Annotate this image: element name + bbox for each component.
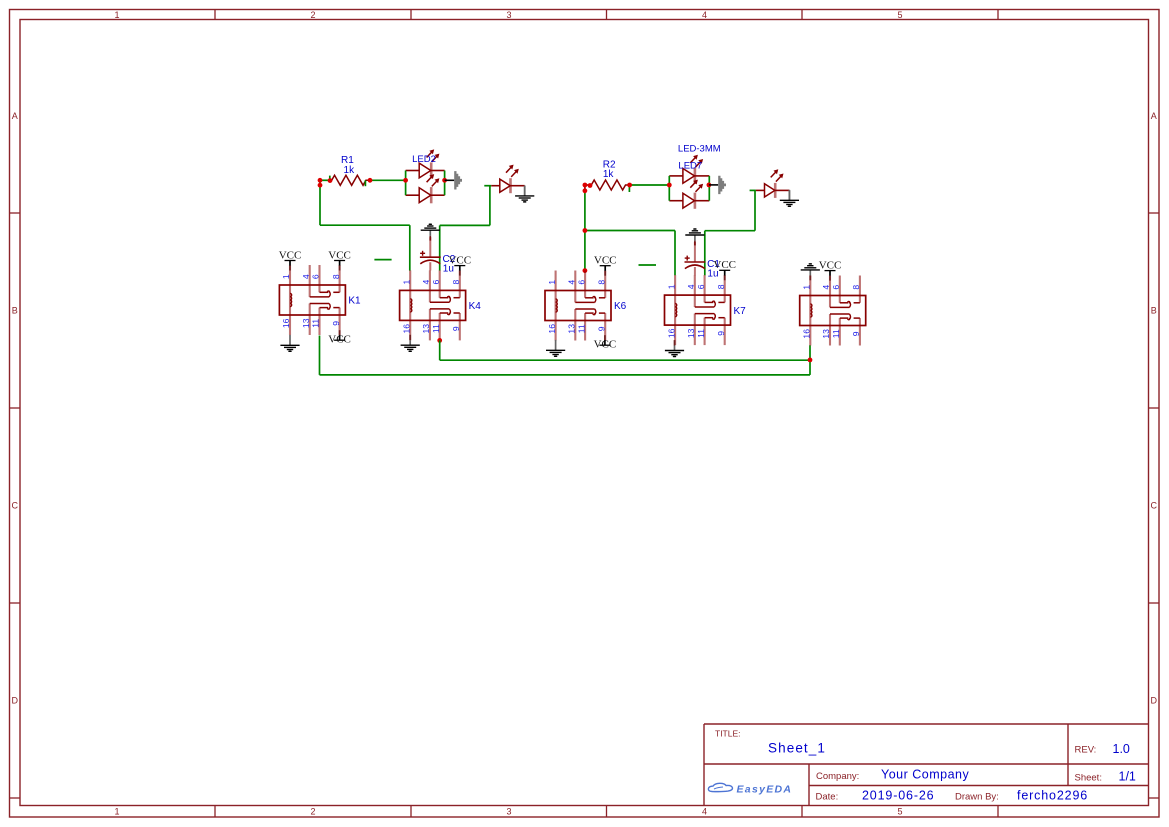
wire: [809, 345, 811, 375]
svg-text:2: 2: [310, 10, 315, 20]
wire: [320, 179, 330, 181]
wire: [440, 359, 810, 361]
svg-text:1/1: 1/1: [1119, 769, 1136, 783]
ground (above C2): [421, 224, 440, 240]
wire: [439, 225, 441, 270]
svg-text:Drawn By:: Drawn By:: [955, 792, 999, 803]
junction (K6 pin 6): [583, 268, 588, 273]
svg-text:16: 16: [281, 318, 291, 328]
resistor R2: [585, 160, 630, 191]
ground flag (gray triangle): [718, 176, 726, 194]
junction: [707, 183, 712, 188]
svg-text:13: 13: [301, 318, 311, 328]
wire: [674, 231, 676, 276]
svg-text:4: 4: [567, 280, 577, 285]
wire: [584, 191, 586, 271]
svg-text:VCC: VCC: [594, 255, 617, 267]
wire: [439, 340, 441, 360]
relay (unlabeled): [800, 276, 866, 346]
power flag VCC (K6 pin 9): [594, 335, 617, 350]
svg-text:C: C: [11, 501, 18, 511]
power flag VCC (K6 pin 8): [594, 255, 617, 276]
LED (unlabeled): [756, 169, 790, 198]
junction: [318, 183, 323, 188]
svg-text:K6: K6: [614, 301, 627, 312]
svg-text:B: B: [12, 306, 18, 316]
svg-text:1: 1: [281, 274, 291, 279]
svg-text:LED-3MM: LED-3MM: [678, 144, 721, 155]
power flag VCC (K4 pin 8): [448, 254, 471, 275]
svg-text:B: B: [1151, 306, 1157, 316]
wire: [484, 185, 491, 187]
relay K6: [545, 271, 627, 341]
svg-text:6: 6: [431, 279, 441, 284]
node (R2 left): [583, 183, 588, 188]
svg-text:Your Company: Your Company: [881, 768, 969, 782]
wire (to ground flag): [709, 184, 718, 186]
wire: [319, 180, 321, 225]
svg-text:VCC: VCC: [279, 249, 302, 261]
svg-text:9: 9: [596, 326, 606, 331]
svg-text:EasyEDA: EasyEDA: [737, 783, 793, 795]
junction: [583, 188, 588, 193]
svg-text:16: 16: [401, 324, 411, 334]
resistor R1: [330, 155, 370, 185]
wire: [628, 185, 630, 192]
svg-text:9: 9: [331, 321, 341, 326]
wire: [705, 230, 755, 232]
ground (above relay pin 1): [801, 264, 820, 280]
junction: [442, 178, 447, 183]
junction: [403, 178, 408, 183]
power flag VCC (K7 pin 8): [713, 259, 736, 280]
wire (LED cathode to ground): [788, 190, 790, 200]
capacitor C1: [685, 242, 721, 279]
svg-text:1k: 1k: [603, 169, 615, 180]
junction (T): [583, 228, 588, 233]
wire: [750, 189, 756, 191]
svg-text:Company:: Company:: [816, 771, 859, 782]
svg-text:8: 8: [596, 280, 606, 285]
node (R2 right): [627, 183, 632, 188]
svg-text:Sheet:: Sheet:: [1075, 773, 1102, 784]
svg-text:4: 4: [301, 274, 311, 279]
svg-text:13: 13: [686, 328, 696, 338]
svg-text:8: 8: [716, 284, 726, 289]
svg-text:1: 1: [114, 10, 119, 20]
svg-text:6: 6: [696, 284, 706, 289]
svg-text:4: 4: [686, 284, 696, 289]
svg-text:1: 1: [802, 285, 812, 290]
svg-text:K7: K7: [734, 306, 747, 317]
wire (stub): [374, 259, 391, 261]
svg-text:K4: K4: [469, 301, 482, 312]
svg-text:11: 11: [311, 319, 321, 328]
svg-text:1: 1: [401, 279, 411, 284]
wire (LED7 right): [708, 176, 710, 201]
wire: [319, 336, 321, 375]
wire: [370, 179, 406, 181]
svg-text:16: 16: [802, 329, 812, 339]
wire: [409, 225, 411, 270]
svg-text:Sheet_1: Sheet_1: [768, 741, 826, 756]
svg-text:11: 11: [576, 324, 586, 333]
wire: [329, 176, 331, 181]
junction: [588, 183, 593, 188]
svg-text:5: 5: [897, 807, 902, 817]
svg-text:16: 16: [547, 324, 557, 334]
svg-text:4: 4: [702, 10, 707, 20]
wire: [704, 231, 706, 276]
wire (LED cathode to ground): [524, 186, 526, 196]
svg-text:VCC: VCC: [328, 249, 351, 261]
svg-text:LED2: LED2: [412, 154, 436, 165]
svg-text:LED7: LED7: [678, 161, 702, 172]
dual LED LED2: [406, 149, 445, 203]
wire (LED7 left): [668, 176, 670, 201]
svg-text:D: D: [11, 696, 18, 706]
svg-text:C: C: [1151, 501, 1158, 511]
junction (K4 pin 11): [437, 338, 442, 343]
svg-text:VCC: VCC: [594, 338, 617, 350]
ground (above C1): [685, 229, 704, 245]
power flag VCC (K1 pin 9): [328, 330, 351, 345]
svg-text:A: A: [1151, 111, 1157, 121]
power flag VCC (K1 pin 8): [328, 249, 351, 270]
svg-text:fercho2296: fercho2296: [1017, 788, 1088, 802]
svg-text:13: 13: [567, 324, 577, 334]
wire: [440, 224, 490, 226]
junction (rails): [808, 358, 813, 363]
wire (stub): [639, 264, 657, 266]
svg-text:VCC: VCC: [713, 259, 736, 271]
ground (LED right): [780, 190, 799, 206]
ground (K4 pin 16): [401, 335, 420, 351]
junction: [328, 178, 333, 183]
svg-text:4: 4: [821, 285, 831, 290]
svg-text:11: 11: [431, 324, 441, 333]
svg-text:A: A: [12, 111, 18, 121]
wire: [630, 184, 670, 186]
svg-text:1: 1: [114, 807, 119, 817]
junction: [667, 183, 672, 188]
svg-text:3: 3: [506, 807, 511, 817]
svg-text:5: 5: [897, 10, 902, 20]
power flag VCC (K1 pin 1): [279, 249, 302, 270]
node (R1 right): [368, 178, 373, 183]
svg-text:6: 6: [576, 280, 586, 285]
wire (LED2 right): [444, 171, 446, 196]
svg-text:13: 13: [821, 329, 831, 339]
svg-text:9: 9: [716, 331, 726, 336]
svg-text:D: D: [1151, 696, 1158, 706]
svg-text:6: 6: [831, 285, 841, 290]
svg-text:VCC: VCC: [819, 259, 842, 271]
ground (K1 pin 16): [280, 335, 299, 351]
wire: [320, 224, 410, 226]
svg-text:Date:: Date:: [816, 792, 839, 803]
svg-text:8: 8: [451, 279, 461, 284]
wire: [489, 186, 491, 226]
svg-text:REV:: REV:: [1075, 745, 1097, 756]
node (R1 left): [318, 178, 323, 183]
svg-text:1k: 1k: [344, 165, 356, 176]
ground (K7 pin 16): [665, 340, 684, 356]
svg-text:K1: K1: [348, 296, 361, 307]
svg-text:8: 8: [331, 274, 341, 279]
wire: [585, 230, 675, 232]
wire: [364, 180, 366, 186]
svg-text:VCC: VCC: [448, 254, 471, 266]
svg-text:VCC: VCC: [328, 333, 351, 345]
svg-text:4: 4: [421, 279, 431, 284]
svg-text:8: 8: [851, 285, 861, 290]
svg-text:1.0: 1.0: [1113, 742, 1130, 756]
svg-text:2019-06-26: 2019-06-26: [862, 788, 934, 802]
relay K1: [279, 265, 361, 335]
wire (LED2 left): [405, 171, 407, 196]
ground flag (gray triangle): [454, 171, 462, 189]
svg-text:6: 6: [311, 274, 321, 279]
dual LED LED7: [669, 144, 720, 209]
capacitor C2: [420, 237, 456, 274]
relay K7: [665, 275, 747, 345]
svg-text:11: 11: [696, 329, 706, 338]
power flag VCC (relay pin 4): [819, 259, 842, 280]
svg-text:16: 16: [666, 328, 676, 338]
wire: [320, 374, 811, 376]
svg-text:2: 2: [310, 807, 315, 817]
svg-text:1: 1: [547, 280, 557, 285]
svg-text:9: 9: [451, 326, 461, 331]
svg-text:11: 11: [831, 329, 841, 338]
ground (K6 pin 16): [546, 340, 565, 356]
svg-text:3: 3: [506, 10, 511, 20]
ground (LED left): [515, 186, 534, 202]
svg-text:13: 13: [421, 324, 431, 334]
svg-text:1: 1: [666, 284, 676, 289]
wire: [754, 190, 756, 230]
relay K4: [400, 270, 482, 340]
wire (node R2 left): [584, 185, 586, 191]
svg-text:4: 4: [702, 807, 707, 817]
svg-text:TITLE:: TITLE:: [715, 729, 741, 739]
wire (to ground flag): [445, 179, 455, 181]
LED (unlabeled): [491, 165, 525, 194]
svg-text:9: 9: [851, 331, 861, 336]
